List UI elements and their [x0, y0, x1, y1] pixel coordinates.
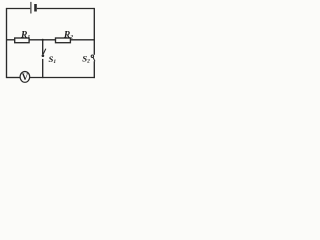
- wire right vertical lower: [93, 61, 95, 78]
- svg-text:R1: R1: [20, 29, 30, 40]
- voltmeter V body: [20, 72, 30, 83]
- wire middle branch lower: [42, 59, 44, 78]
- wire between R1 and R2: [29, 39, 55, 41]
- wire middle-left segment: [7, 39, 15, 41]
- wire bottom-right segment: [30, 77, 95, 79]
- svg-text:S1: S1: [49, 54, 57, 65]
- wire bottom-left segment: [7, 77, 21, 79]
- wire left vertical: [6, 8, 8, 78]
- battery cell E long plate: [30, 2, 32, 14]
- battery cell E short thick plate: [34, 4, 37, 12]
- switch S1 blade: [43, 49, 46, 55]
- resistor R2 body: [56, 38, 71, 43]
- wire middle branch upper: [42, 40, 44, 55]
- svg-text:S2: S2: [82, 54, 90, 65]
- svg-text:V: V: [22, 72, 29, 82]
- node junction of branch and middle wire: [42, 39, 44, 41]
- wire right vertical upper: [93, 8, 95, 55]
- wire top-right segment: [37, 8, 94, 10]
- wire top-left segment: [7, 8, 31, 10]
- resistor R1 body: [15, 38, 29, 43]
- switch S2 blade: [93, 57, 95, 61]
- svg-text:R2: R2: [63, 29, 73, 40]
- switch S1 pivot contact: [42, 54, 45, 57]
- wire middle-right segment: [70, 39, 95, 41]
- switch S2 pivot contact: [91, 55, 93, 57]
